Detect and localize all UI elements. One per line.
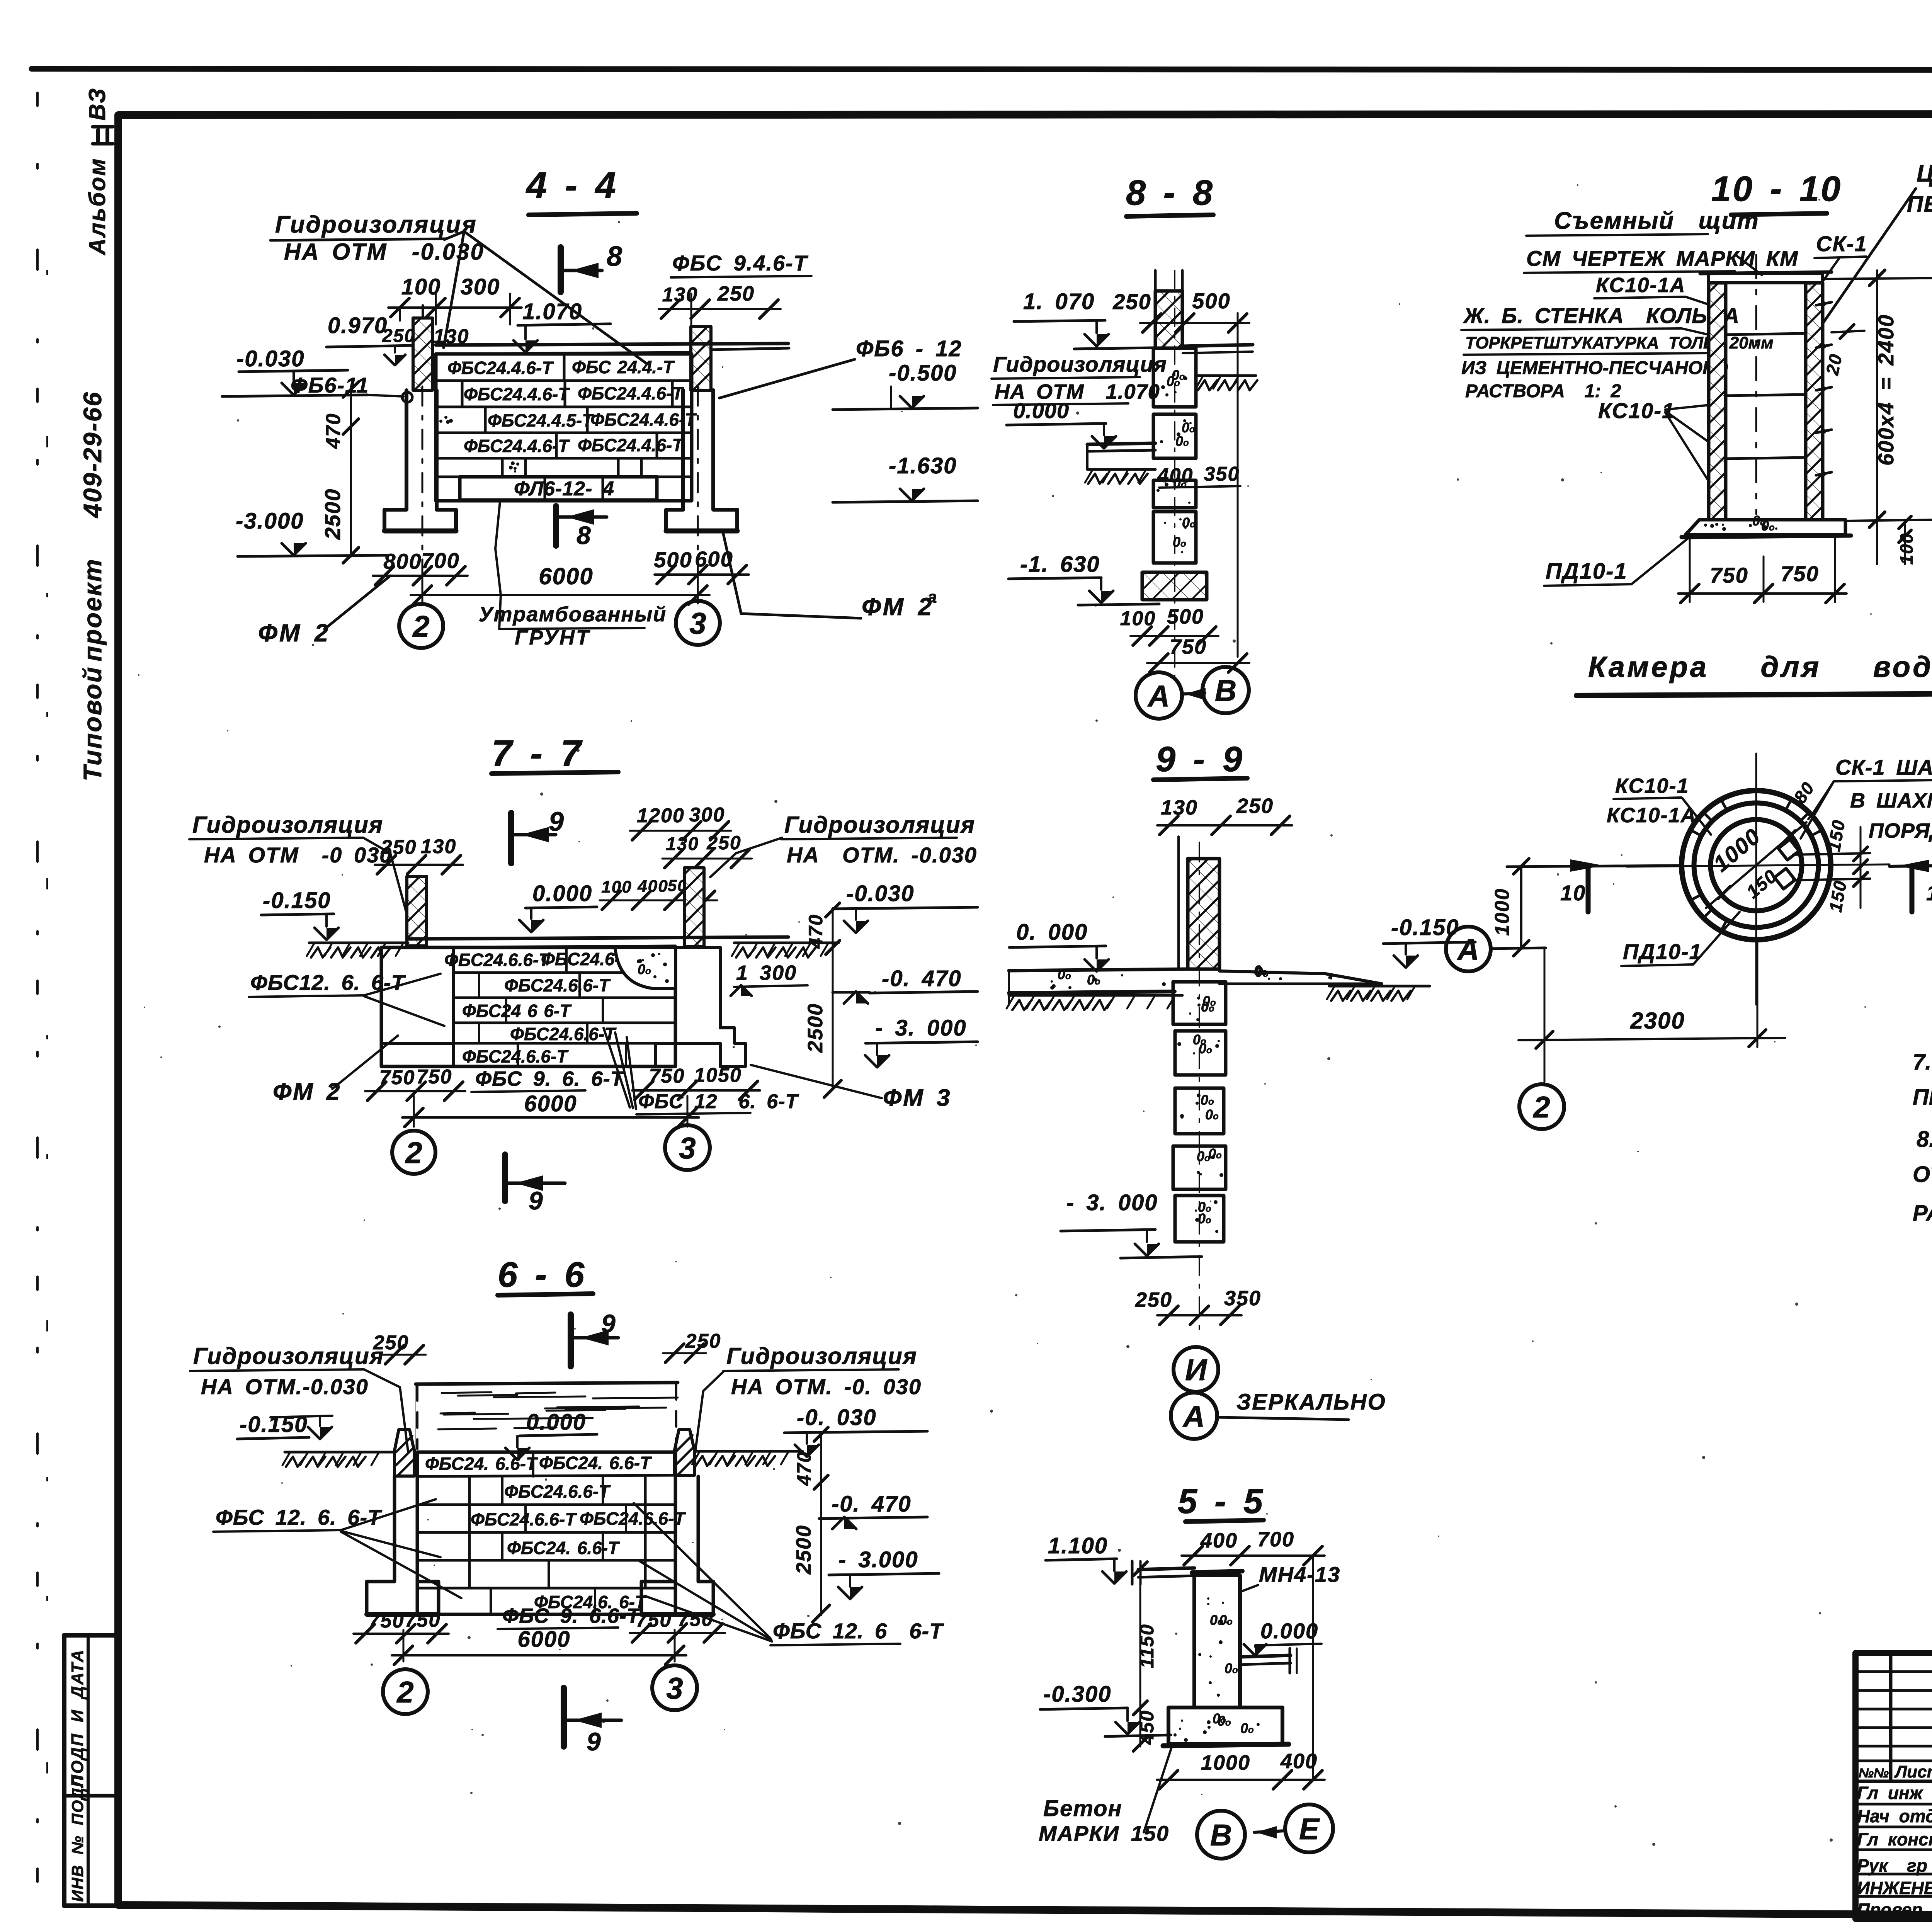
svg-text:4: 4 [602, 478, 614, 500]
section 4-4 left pier FM2 [384, 390, 456, 531]
svg-text:ФМ 2: ФМ 2 [862, 593, 933, 621]
svg-text:ВЗ: ВЗ [84, 87, 110, 121]
svg-text:8. Гидроизоляцию под кир: 8. Гидроизоляцию под кирпичные стены на [1917, 1127, 1932, 1152]
svg-text:3: 3 [689, 606, 706, 640]
svg-text:750: 750 [636, 1609, 672, 1631]
svg-text:0. 000: 0. 000 [1016, 920, 1088, 945]
svg-text:РАСТВОРА СОСТАВА 1: 2: РАСТВОРА СОСТАВА 1: 2 ТОЛЩИНОЙ 30 мм. [1913, 1200, 1932, 1226]
svg-text:ФБС 24.4.-Т: ФБС 24.4.-Т [572, 357, 675, 377]
svg-text:ПОДП И ДАТА: ПОДП И ДАТА [68, 1649, 87, 1787]
7-7 left wall hatched [407, 876, 427, 946]
svg-text:-0.500: -0.500 [889, 361, 957, 386]
svg-text:-0.030: -0.030 [236, 346, 304, 371]
svg-text:КС10-1: КС10-1 [1598, 398, 1675, 423]
svg-text:2500: 2500 [792, 1525, 815, 1575]
wall centerline dashed 8-8 [1174, 270, 1175, 676]
5-5 right floor slabs (0.000) [1240, 1655, 1291, 1657]
svg-text:2300: 2300 [1630, 1008, 1685, 1034]
svg-text:1.100: 1.100 [1048, 1533, 1108, 1558]
svg-text:5 - 5: 5 - 5 [1178, 1482, 1264, 1521]
9-9 wall hatched [1188, 859, 1219, 969]
svg-text:400: 400 [1200, 1529, 1238, 1552]
svg-text:МАРКИ 150: МАРКИ 150 [1039, 1821, 1169, 1845]
6-6 right pier with footing [697, 1476, 700, 1582]
7-7 block joints [565, 947, 568, 973]
title block signature row lines [1855, 1803, 1932, 1806]
10-10 right wall [1806, 283, 1823, 520]
section mark 10 right of plan [1910, 866, 1915, 912]
svg-text:проект: проект [78, 558, 107, 662]
svg-text:ФБС24 6 6-Т: ФБС24 6 6-Т [462, 1001, 572, 1021]
left binding dashed line [36, 93, 39, 1932]
dim 20 near right wall [1832, 331, 1864, 332]
svg-text:2500: 2500 [320, 488, 345, 540]
ground line left 7-7 [309, 942, 408, 944]
svg-text:Провер: Провер [1857, 1900, 1923, 1920]
axis circle А (plan) [1446, 927, 1491, 971]
svg-text:Гл констр: Гл констр [1857, 1829, 1932, 1849]
svg-text:600х4 = 2400: 600х4 = 2400 [1874, 314, 1898, 466]
ground hatch 9-9 [1009, 994, 1182, 997]
section 4-4 right brick wall hatched [691, 327, 711, 390]
svg-text:450: 450 [1136, 1710, 1158, 1745]
svg-text:8 - 8: 8 - 8 [1126, 173, 1214, 213]
svg-text:КС10-1А: КС10-1А [1596, 274, 1686, 297]
svg-text:И: И [1185, 1353, 1207, 1387]
svg-text:ИНВ № ПОДЛ: ИНВ № ПОДЛ [68, 1775, 87, 1902]
section 4-4 floor slab lines [436, 344, 788, 345]
svg-text:6000: 6000 [517, 1627, 570, 1652]
svg-text:- 3.000: - 3.000 [838, 1547, 918, 1572]
7-7 block wall outline [381, 947, 675, 1066]
6-6 top row (between stubs) [417, 1475, 675, 1476]
svg-text:Рук гр: Рук гр [1857, 1855, 1927, 1876]
svg-text:500: 500 [1192, 289, 1230, 313]
10-10 base slab ПД10-1 [1685, 520, 1845, 535]
camera plan centerlines [1755, 753, 1757, 1005]
svg-text:0.970: 0.970 [328, 313, 388, 338]
svg-text:2: 2 [412, 609, 429, 643]
svg-text:6000: 6000 [539, 563, 593, 589]
svg-text:-0.030: -0.030 [846, 881, 914, 906]
section 8-8 brick wall hatched [1155, 291, 1182, 348]
svg-text:-0.150: -0.150 [263, 888, 331, 913]
camera plan inner circle [1711, 820, 1802, 911]
svg-text:А: А [1457, 932, 1479, 966]
7-7 monolith left part [452, 947, 455, 1066]
svg-text:ФБС24. 6.6-Т: ФБС24. 6.6-Т [539, 1453, 652, 1473]
svg-text:10: 10 [1926, 881, 1932, 905]
svg-text:Съемный щит: Съемный щит [1554, 207, 1759, 234]
axis circle 3 (7-7) [665, 1125, 710, 1170]
svg-text:ФБС 12. 6 6-Т: ФБС 12. 6 6-Т [773, 1619, 944, 1643]
block row lines 4-4 [436, 379, 692, 382]
svg-text:ИЗ ЦЕМЕНТНО-ПЕСЧАНОГО: ИЗ ЦЕМЕНТНО-ПЕСЧАНОГО [1461, 358, 1728, 378]
svg-text:ЗЕРКАЛЬНО: ЗЕРКАЛЬНО [1236, 1389, 1386, 1415]
7-7 floor slab [408, 937, 788, 939]
svg-text:470: 470 [322, 413, 345, 449]
7-7 right wall hatched [684, 868, 704, 947]
6-6 left pier with footing [367, 1476, 439, 1614]
svg-text:- 3. 000: - 3. 000 [875, 1015, 967, 1041]
section mark 9 top (6-6) [568, 1315, 574, 1366]
floor slab left 8-8 [1087, 443, 1155, 444]
svg-text:КС10-1: КС10-1 [1615, 774, 1689, 798]
svg-text:ФБС 9. 6.6-Т: ФБС 9. 6.6-Т [502, 1604, 641, 1628]
svg-text:ФБС24.6.6-Т: ФБС24.6.6-Т [462, 1046, 569, 1066]
svg-text:ФБС24.4.6-Т: ФБС24.4.6-Т [464, 384, 570, 404]
svg-text:500: 500 [1167, 605, 1204, 628]
svg-text:750: 750 [1781, 561, 1819, 586]
svg-text:1200: 1200 [637, 804, 685, 827]
left margin stamp boxes (Подп и дата / Инв N подл) [64, 1635, 118, 1906]
svg-text:ФБС24.6.6-Т: ФБС24.6.6-Т [504, 1481, 611, 1502]
6-6 block joints [501, 1476, 503, 1505]
level 0.000 mark 8-8 [1092, 436, 1116, 448]
svg-text:0.000: 0.000 [532, 881, 592, 906]
axis circle В (5-5) [1197, 1811, 1245, 1859]
svg-text:9: 9 [587, 1727, 602, 1756]
svg-text:Цементно-: Цементно- [1917, 160, 1932, 187]
svg-text:7 - 7: 7 - 7 [492, 733, 583, 774]
svg-text:-0.150: -0.150 [1391, 915, 1459, 940]
svg-text:В ШАХМАТНОМ: В ШАХМАТНОМ [1850, 789, 1932, 812]
svg-text:Гидроизоляция: Гидроизоляция [275, 211, 477, 238]
section 4-4 mark 8 top [558, 247, 564, 292]
ground line right 6-6 [694, 1450, 803, 1453]
svg-text:2: 2 [396, 1675, 413, 1709]
10-10 ring joint lines [1726, 333, 1806, 335]
svg-text:Типовой: Типовой [78, 666, 107, 781]
svg-text:2: 2 [405, 1136, 422, 1170]
svg-text:700: 700 [1257, 1528, 1294, 1551]
vertical dim 1150/450 (5-5) [1139, 1561, 1141, 1747]
svg-text:250: 250 [373, 1332, 409, 1354]
svg-text:250: 250 [1236, 794, 1274, 818]
svg-text:4 - 4: 4 - 4 [526, 165, 617, 206]
svg-text:250: 250 [717, 282, 755, 305]
svg-text:ФБС24.4.6-Т: ФБС24.4.6-Т [578, 383, 684, 403]
svg-text:250: 250 [382, 326, 415, 346]
axis circle 2 (6-6) [383, 1669, 428, 1714]
svg-text:ФМ 2: ФМ 2 [273, 1078, 341, 1105]
10-10 centerline dashed [1755, 255, 1757, 514]
svg-text:НА ОТМ -0.030: НА ОТМ -0.030 [284, 239, 485, 265]
svg-text:9: 9 [601, 1309, 616, 1338]
ground hatch right 8-8 [1198, 374, 1256, 377]
6-6 slab end dashed lines [416, 1385, 418, 1449]
ФЛ footing strip 4-4 [460, 477, 657, 500]
svg-text:9: 9 [529, 1186, 544, 1215]
axis circle 2 (7-7) [392, 1131, 435, 1174]
svg-text:350: 350 [1224, 1287, 1261, 1310]
svg-text:- 3. 000: - 3. 000 [1066, 1190, 1158, 1215]
block stack 8-8 [1153, 348, 1196, 407]
9-9 floor slab left [1009, 969, 1188, 971]
svg-text:-0.300: -0.300 [1043, 1682, 1111, 1707]
svg-text:ОТМ. -0.030 И 1. 070 В: ОТМ. -0.030 И 1. 070 ВЫПОЛНИТЬ ИЗ ЦЕМЕНТ… [1913, 1162, 1932, 1187]
svg-text:1 300: 1 300 [736, 961, 797, 985]
camera plan axis extension left [1507, 866, 1682, 867]
svg-text:ФБС24. 6.6-Т: ФБС24. 6.6-Т [507, 1538, 620, 1558]
svg-text:6000: 6000 [524, 1091, 577, 1116]
svg-text:НА ОТМ.-0.030: НА ОТМ.-0.030 [201, 1374, 369, 1399]
vertical dim 600x4=2400 [1876, 270, 1878, 564]
svg-text:-1. 630: -1. 630 [1020, 552, 1100, 577]
axis circle 2 (plan) [1519, 1084, 1564, 1129]
svg-text:ФБС24.4.6-Т: ФБС24.4.6-Т [464, 436, 570, 456]
svg-text:ПЕСЧАНУЮ ПОДГОТОВКУ ТО: ПЕСЧАНУЮ ПОДГОТОВКУ ТОЛЩИНОЙ 100мм. [1913, 1084, 1932, 1110]
svg-text:НА ОТМ. -0.030: НА ОТМ. -0.030 [787, 843, 977, 867]
svg-text:ФБС 12 6. 6-Т: ФБС 12 6. 6-Т [638, 1090, 799, 1113]
floor slab right top 8-8 [1183, 345, 1253, 346]
svg-text:10 - 10: 10 - 10 [1711, 169, 1842, 209]
small speckled block row 4-4 [514, 467, 517, 470]
svg-text:МН4-13: МН4-13 [1259, 1562, 1340, 1587]
5-5 left floor slabs [1138, 1568, 1194, 1570]
svg-text:ФБС24.4.5-Т: ФБС24.4.5-Т [488, 410, 594, 430]
axis circle 2 (4-4) [399, 604, 443, 648]
svg-text:Гидроизоляция: Гидроизоляция [192, 812, 383, 838]
axis circle В (8-8) [1202, 667, 1249, 713]
svg-text:ПД10-1: ПД10-1 [1546, 559, 1628, 584]
svg-text:ПД10-1: ПД10-1 [1623, 939, 1702, 964]
svg-text:ФБС24.6.6-Т: ФБС24.6.6-Т [444, 950, 551, 970]
arrow between А and В [1183, 693, 1205, 694]
svg-text:400: 400 [637, 877, 668, 896]
axis circle И (9-9) [1173, 1347, 1218, 1392]
svg-text:Е: Е [1299, 1812, 1320, 1846]
svg-text:250: 250 [1112, 289, 1151, 314]
svg-text:ФМ 3: ФМ 3 [883, 1085, 951, 1111]
10-10 anchor marks on right wall [1816, 302, 1832, 305]
ground line left 8-8 [1087, 468, 1155, 471]
svg-text:НА ОТМ -0 030: НА ОТМ -0 030 [204, 843, 392, 867]
svg-text:470: 470 [793, 1451, 815, 1486]
svg-text:Лист: Лист [1894, 1762, 1932, 1781]
svg-text:750: 750 [1710, 563, 1748, 587]
svg-text:ФБС24.6.6-Т: ФБС24.6.6-Т [471, 1509, 577, 1529]
svg-text:Гидроизоляция: Гидроизоляция [993, 352, 1167, 376]
svg-text:250: 250 [685, 1330, 721, 1352]
svg-text:0.000: 0.000 [526, 1410, 586, 1435]
camera plan chord lines right [1793, 853, 1870, 855]
svg-text:1000: 1000 [1201, 1751, 1250, 1774]
svg-text:-0. 470: -0. 470 [882, 966, 962, 991]
svg-text:2500: 2500 [804, 1003, 827, 1053]
svg-text:В: В [1215, 673, 1236, 707]
section 4-4 left brick wall hatched [413, 318, 432, 390]
camera plan anchor squares [1778, 839, 1799, 860]
7-7 right monolith FM3 [655, 947, 675, 1066]
svg-text:ФБС24.6.6-Т: ФБС24.6.6-Т [504, 975, 611, 995]
svg-text:ФЛ6-12-: ФЛ6-12- [514, 478, 592, 500]
svg-text:СМ ЧЕРТЕЖ МАРКИ КМ: СМ ЧЕРТЕЖ МАРКИ КМ [1526, 246, 1798, 270]
svg-text:СК-1 ШАГ 300: СК-1 ШАГ 300 [1835, 755, 1932, 779]
axis circle 3 (6-6) [652, 1665, 697, 1710]
svg-text:9 - 9: 9 - 9 [1156, 740, 1244, 779]
svg-text:ПОРЯДКЕ: ПОРЯДКЕ [1869, 819, 1932, 842]
svg-text:130: 130 [662, 284, 698, 306]
svg-text:Ж. Б. СТЕНКА КОЛЬЦА: Ж. Б. СТЕНКА КОЛЬЦА [1463, 303, 1740, 328]
svg-text:3: 3 [679, 1131, 696, 1165]
svg-text:1150: 1150 [1136, 1624, 1158, 1668]
sheet outer top edge line [32, 69, 1932, 70]
section mark 9 bottom (6-6) [561, 1688, 567, 1747]
svg-text:ФБС24.4.6-Т: ФБС24.4.6-Т [447, 358, 554, 378]
svg-text:а: а [927, 588, 937, 607]
section 4-4 mark 8 bottom [553, 506, 559, 546]
svg-text:0.000: 0.000 [1260, 1619, 1318, 1643]
camera plan outer circle [1682, 791, 1831, 940]
svg-text:250: 250 [381, 836, 417, 859]
camera plan radial wedges [1721, 799, 1727, 810]
pier centerline dashed left [422, 386, 423, 580]
svg-text:НА ОТМ. -0. 030: НА ОТМ. -0. 030 [731, 1374, 922, 1399]
6-6 left wall stub hatched [395, 1430, 414, 1476]
5-5 footing [1168, 1708, 1282, 1744]
svg-text:600: 600 [695, 547, 733, 571]
svg-text:КС10-1А: КС10-1А [1607, 804, 1697, 827]
svg-text:Гидроизоляция: Гидроизоляция [784, 812, 975, 838]
svg-text:Гидроизоляция: Гидроизоляция [193, 1343, 384, 1369]
svg-text:6 - 6: 6 - 6 [498, 1255, 586, 1294]
svg-text:Нач отд.: Нач отд. [1857, 1806, 1932, 1826]
footing ФЛ 8-8 hatched [1142, 572, 1207, 600]
svg-text:1050: 1050 [694, 1064, 742, 1087]
svg-text:2: 2 [1532, 1090, 1550, 1124]
section 4-4 right pier FM2a [666, 390, 737, 531]
ground line left 6-6 [285, 1451, 395, 1454]
axis circle 3 (4-4) [676, 601, 720, 645]
svg-text:СК-1: СК-1 [1816, 231, 1867, 256]
svg-text:350: 350 [1204, 463, 1240, 485]
svg-text:В: В [1210, 1818, 1232, 1852]
svg-text:8: 8 [607, 241, 623, 272]
7-7 concrete patch top right [615, 947, 675, 988]
svg-text:ФБС 9.4.6-Т: ФБС 9.4.6-Т [672, 251, 809, 275]
block vertical joints 4-4 [563, 354, 566, 381]
6-6 row lines [417, 1503, 675, 1506]
svg-text:Бетон: Бетон [1043, 1796, 1122, 1821]
svg-text:ФБ6 - 12: ФБ6 - 12 [856, 336, 962, 361]
9-9 ramp right [1219, 971, 1382, 984]
section mark 9 top (7-7) [508, 813, 514, 863]
svg-text:100: 100 [1896, 533, 1917, 565]
svg-text:ФБС24.6.6-Т: ФБС24.6.6-Т [510, 1024, 617, 1044]
svg-text:ФБС24. 6.6-Т: ФБС24. 6.6-Т [425, 1454, 538, 1474]
7-7 block row lines [454, 971, 675, 974]
10-10 top removable deck [1709, 274, 1822, 283]
svg-text:ФБС 9. 6. 6-Т: ФБС 9. 6. 6-Т [475, 1067, 625, 1090]
section 4-4 block wall outline [436, 354, 692, 501]
scan speckle noise [1165, 482, 1166, 484]
svg-text:Альбом: Альбом [84, 158, 110, 256]
svg-text:ФБС24.4.6-Т: ФБС24.4.6-Т [590, 410, 697, 430]
6-6 right wall stub hatched [675, 1430, 694, 1475]
10-10 left wall [1709, 283, 1726, 520]
svg-text:10: 10 [1560, 881, 1586, 905]
svg-text:ФМ 2: ФМ 2 [258, 619, 330, 647]
6-6 floor slab with water strokes [416, 1383, 678, 1384]
svg-text:ФБС24.6.6-Т: ФБС24.6.6-Т [580, 1509, 686, 1529]
svg-text:750: 750 [379, 1066, 415, 1089]
title block upper-left row lines [1855, 1670, 1932, 1673]
svg-text:300: 300 [689, 804, 725, 826]
camera plan diagonal diameter 1000 [1706, 822, 1806, 908]
svg-text:-1.630: -1.630 [889, 453, 957, 478]
9-9 centerline dashed [1199, 842, 1200, 1329]
arrow between В and Е (5-5) [1254, 1831, 1285, 1832]
svg-text:ИНЖЕНЕР: ИНЖЕНЕР [1857, 1878, 1932, 1898]
title block vertical lines [1889, 1653, 1893, 1781]
svg-text:ФБС24.4.6-Т: ФБС24.4.6-Т [578, 435, 684, 455]
6-6 monolith joints [468, 1476, 471, 1588]
svg-text:300: 300 [461, 274, 500, 299]
section mark 10 left of plan [1586, 866, 1591, 912]
svg-text:7. Под каналами из сбо: 7. Под каналами из сборных лотков, выпол… [1913, 1049, 1932, 1075]
svg-text:750: 750 [369, 1610, 405, 1632]
5-5 column [1194, 1575, 1240, 1708]
pier centerline dashed right [697, 386, 699, 580]
leader lines from гидроизоляция to walls [444, 231, 647, 364]
svg-text:3: 3 [666, 1671, 683, 1705]
svg-text:9: 9 [549, 806, 565, 837]
svg-text:0.000: 0.000 [1013, 398, 1069, 423]
title block outer box [1855, 1653, 1932, 1919]
svg-text:-3.000: -3.000 [236, 509, 304, 534]
svg-text:А: А [1147, 679, 1170, 713]
svg-text:А: А [1182, 1399, 1205, 1433]
svg-text:-0. 030: -0. 030 [797, 1405, 877, 1430]
axis circle А (8-8) [1136, 672, 1182, 719]
9-9 block stack [1173, 982, 1226, 1024]
axis circle А (9-9) [1171, 1393, 1217, 1439]
6-6 block wall outline [417, 1452, 675, 1614]
svg-text:Гидроизоляция: Гидроизоляция [726, 1343, 917, 1369]
svg-text:250: 250 [1135, 1288, 1172, 1311]
svg-text:№№: №№ [1859, 1766, 1889, 1781]
svg-text:1.070: 1.070 [522, 299, 582, 324]
svg-text:409-29-66: 409-29-66 [78, 391, 107, 519]
dim 150/150/80 right of plan [1860, 827, 1862, 908]
svg-text:Утрамбованный: Утрамбованный [479, 603, 667, 626]
svg-text:1000: 1000 [1491, 888, 1514, 936]
ground line right 7-7 [734, 942, 838, 944]
svg-text:Камера для воды К1: Камера для воды К1 [1588, 651, 1932, 684]
svg-text:1. 070: 1. 070 [1023, 289, 1095, 314]
camera plan middle circle [1694, 803, 1818, 927]
svg-text:8: 8 [577, 521, 592, 549]
section mark 9 bottom (7-7) [502, 1155, 508, 1201]
svg-text:Гл инж пр: Гл инж пр [1857, 1783, 1932, 1803]
svg-text:750: 750 [649, 1065, 685, 1087]
svg-text:470: 470 [805, 914, 827, 949]
svg-text:-0. 470: -0. 470 [832, 1492, 912, 1517]
axis circle Е (5-5) [1285, 1804, 1333, 1852]
svg-text:400: 400 [1280, 1750, 1318, 1773]
title block header row line [1855, 1780, 1932, 1783]
